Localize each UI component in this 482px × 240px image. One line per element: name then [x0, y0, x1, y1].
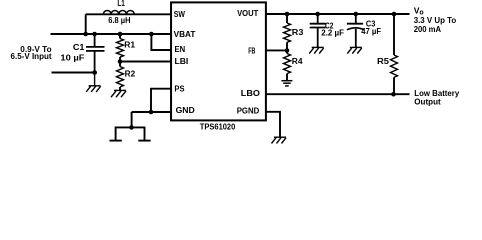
node junction VBAT-R1: [118, 32, 123, 37]
ground earth below C2: [309, 47, 324, 53]
node junction R1-R2-LBI: [118, 59, 123, 64]
svg-text:TPS61020: TPS61020: [200, 122, 236, 132]
svg-text:LBI: LBI: [175, 56, 189, 66]
node junction VOUT-C2: [315, 12, 320, 17]
wire FB: [266, 49, 287, 51]
wire GND drop: [131, 112, 133, 127]
svg-text:VOUT: VOUT: [237, 8, 259, 18]
node junction C1-return: [92, 70, 97, 75]
ground earth below PGND: [272, 137, 287, 143]
wire L1 riser: [85, 14, 87, 34]
svg-text:L1: L1: [117, 0, 125, 8]
resistor R3: [284, 14, 291, 51]
resistor R4: [284, 51, 291, 81]
svg-text:FB: FB: [248, 45, 255, 55]
resistor R5: [391, 14, 398, 94]
node junction R3-R4-FB: [285, 48, 290, 53]
svg-text:2.2 µF: 2.2 µF: [321, 28, 344, 38]
capacitor C3 polarized: [347, 14, 364, 47]
svg-text:C1: C1: [73, 42, 85, 52]
node junction GND bar: [129, 125, 134, 130]
resistor R2: [117, 62, 124, 91]
wire EN tie to VBAT: [151, 34, 171, 50]
ground three-bar below R4: [281, 81, 292, 86]
wire GND: [132, 111, 171, 113]
node junction VBAT-C1: [92, 32, 97, 37]
svg-text:10 µF: 10 µF: [60, 53, 84, 63]
svg-text:GND: GND: [176, 105, 195, 115]
node junction VOUT-R3: [285, 12, 290, 17]
svg-text:EN: EN: [175, 44, 186, 54]
capacitor C1: [86, 34, 105, 73]
node junction VBAT-L1: [83, 32, 88, 37]
svg-text:LBO: LBO: [241, 88, 261, 98]
capacitor C2: [310, 14, 326, 47]
svg-text:6.8 µH: 6.8 µH: [108, 15, 130, 25]
op-amp U1 TPS61020 IC outline: [171, 2, 266, 120]
wire PS: [151, 89, 171, 112]
ground bar with two feet: [110, 127, 151, 140]
node junction R5-LBO: [391, 92, 396, 97]
svg-text:VBAT: VBAT: [174, 29, 197, 39]
wire VOUT line: [266, 13, 410, 15]
node junction VOUT-R5: [392, 12, 397, 17]
svg-text:6.5-V Input: 6.5-V Input: [11, 51, 52, 61]
node junction VBAT-EN: [149, 32, 154, 37]
svg-text:200 mA: 200 mA: [414, 24, 441, 34]
svg-text:R1: R1: [124, 40, 135, 50]
node junction VOUT-C3: [354, 12, 359, 17]
svg-text:PGND: PGND: [237, 106, 260, 116]
svg-text:R2: R2: [125, 69, 136, 79]
wire VBAT input line: [51, 33, 172, 35]
svg-text:PS: PS: [174, 83, 184, 93]
svg-text:R3: R3: [292, 27, 304, 37]
wire input return line: [52, 72, 98, 74]
svg-text:47 µF: 47 µF: [361, 26, 381, 36]
svg-text:SW: SW: [174, 9, 186, 19]
wire LBI: [120, 61, 171, 63]
resistor R1: [117, 34, 124, 62]
ground earth below C1: [86, 73, 101, 93]
wire LBO line: [266, 93, 410, 95]
ground earth below C3: [347, 47, 362, 53]
ground earth below R2: [111, 90, 126, 97]
svg-text:R4: R4: [292, 56, 303, 66]
wire PGND: [266, 112, 280, 137]
inductor L1: [86, 10, 171, 14]
svg-text:Output: Output: [414, 97, 441, 107]
node junction PS-GND: [149, 110, 154, 115]
svg-text:R5: R5: [377, 56, 389, 66]
